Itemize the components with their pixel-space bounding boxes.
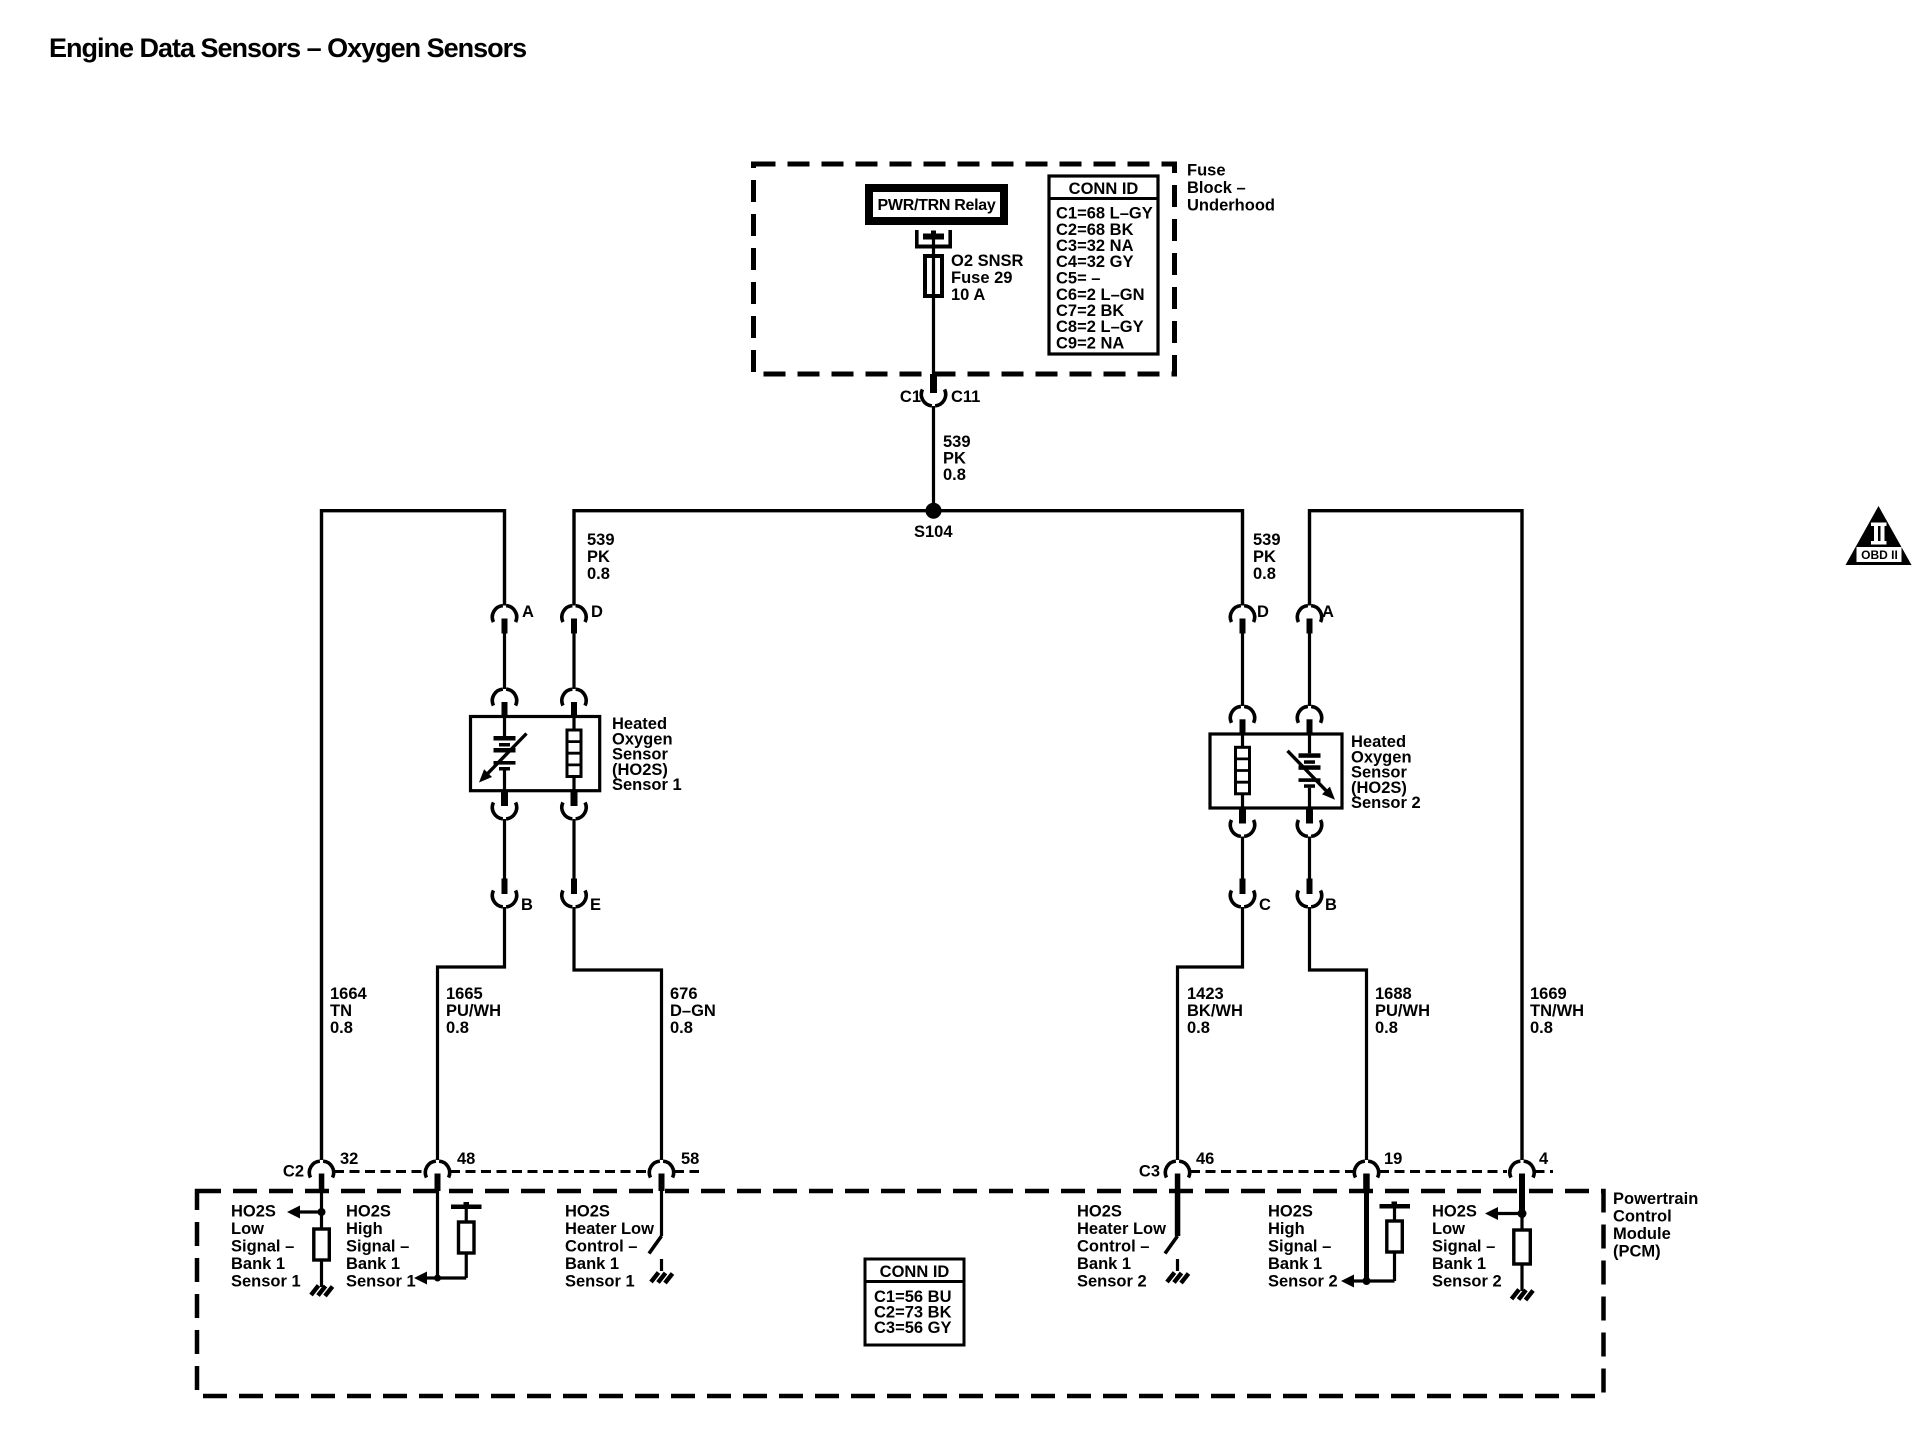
svg-text:0.8: 0.8 [1375, 1019, 1398, 1037]
relay output terminal [915, 230, 952, 249]
CONN ID table (fuse block) [1049, 176, 1158, 354]
svg-text:D–GN: D–GN [670, 1002, 716, 1020]
wire 1664 top run (pin32 to sensor1 A) [322, 511, 505, 1160]
wire A to sensor2 [1308, 634, 1311, 707]
connector at sensor2 pin B [1297, 808, 1321, 836]
text HO2S Low Signal Bank1 Sensor1 [231, 1203, 301, 1291]
svg-text:PU/WH: PU/WH [446, 1002, 501, 1020]
arrow HO2S high signal s1 [414, 1272, 438, 1285]
svg-text:PK: PK [943, 450, 966, 468]
connector C (sensor2 harness) [1230, 879, 1271, 915]
label 539 PK 0.8 (sensor2 D) [1253, 531, 1281, 583]
wire pin19 down [1364, 1191, 1369, 1281]
svg-text:D: D [591, 603, 603, 621]
svg-text:Heater Low: Heater Low [1077, 1220, 1166, 1238]
wire D to sensor2 [1241, 634, 1244, 707]
node pin19 junction [1363, 1277, 1371, 1285]
text HO2S Heater Low Control Bank1 Sensor1 [565, 1203, 654, 1291]
svg-text:High: High [1268, 1220, 1305, 1238]
wire pin4 to resistor [1520, 1214, 1523, 1231]
PCM pin header dashes [334, 1170, 1553, 1173]
wire 1423 run to pin46 [1178, 907, 1243, 1160]
svg-text:HO2S: HO2S [1268, 1203, 1313, 1221]
svg-text:539: 539 [943, 433, 971, 451]
resistor low signal s1 [314, 1229, 330, 1260]
svg-text:C3: C3 [1139, 1163, 1160, 1181]
svg-text:0.8: 0.8 [446, 1019, 469, 1037]
svg-text:676: 676 [670, 985, 698, 1003]
node pin48 junction [434, 1275, 441, 1282]
PWR/TRN Relay box [869, 188, 1004, 221]
svg-text:TN: TN [330, 1002, 352, 1020]
connector at sensor1 pin E [562, 791, 586, 819]
wire A to sensor1 [503, 634, 506, 690]
wire 676 run to pin58 [574, 907, 662, 1160]
label 676 D-GN 0.8 [670, 985, 716, 1037]
svg-text:Powertrain: Powertrain [1613, 1190, 1698, 1208]
svg-text:HO2S: HO2S [346, 1203, 391, 1221]
svg-text:Low: Low [1432, 1220, 1465, 1238]
svg-text:Fuse 29: Fuse 29 [951, 269, 1012, 287]
pullup resistor high signal s1 [438, 1202, 482, 1278]
svg-text:HO2S: HO2S [1077, 1203, 1122, 1221]
svg-text:Block –: Block – [1187, 179, 1246, 197]
sensor1 sensing element (variable battery) [479, 717, 527, 791]
svg-text:0.8: 0.8 [1187, 1019, 1210, 1037]
svg-text:Control: Control [1613, 1208, 1672, 1226]
connector at sensor1 pin B [492, 791, 516, 819]
svg-text:Control –: Control – [1077, 1238, 1149, 1256]
svg-text:Engine Data Sensors – Oxygen S: Engine Data Sensors – Oxygen Sensors [49, 33, 526, 63]
svg-text:TN/WH: TN/WH [1530, 1002, 1584, 1020]
connector A (sensor2 harness) [1297, 603, 1334, 634]
svg-text:Bank 1: Bank 1 [1077, 1255, 1131, 1273]
svg-text:0.8: 0.8 [943, 466, 966, 484]
svg-text:PU/WH: PU/WH [1375, 1002, 1430, 1020]
svg-text:(PCM): (PCM) [1613, 1243, 1661, 1261]
connector B (sensor1 harness) [492, 879, 533, 915]
OBD II symbol [1846, 506, 1912, 565]
resistor low signal s2 [1514, 1230, 1531, 1264]
svg-text:C2: C2 [283, 1163, 304, 1181]
label 539 PK 0.8 (feed) [943, 433, 971, 484]
connector at sensor2 pin C [1230, 808, 1254, 836]
svg-text:58: 58 [681, 1150, 699, 1168]
svg-text:S104: S104 [914, 523, 953, 541]
wire 539 feed to S104 [932, 406, 935, 511]
wire 1688 run to pin19 [1310, 907, 1367, 1160]
svg-text:Sensor 1: Sensor 1 [565, 1273, 635, 1291]
pin 4 connector [1510, 1150, 1549, 1213]
wire sensor2 C down [1241, 837, 1244, 879]
svg-text:Bank 1: Bank 1 [565, 1255, 619, 1273]
label 1688 PU/WH 0.8 [1375, 985, 1430, 1037]
svg-text:Sensor 1: Sensor 1 [231, 1273, 301, 1291]
svg-text:46: 46 [1196, 1150, 1214, 1168]
PCM label [1613, 1190, 1698, 1261]
svg-text:Signal –: Signal – [346, 1238, 409, 1256]
svg-text:Sensor 2: Sensor 2 [1351, 794, 1421, 812]
svg-text:0.8: 0.8 [670, 1019, 693, 1037]
ground heater control s1 [651, 1259, 673, 1283]
wire resistor to ground s2 [1520, 1264, 1523, 1291]
svg-text:0.8: 0.8 [330, 1019, 353, 1037]
svg-text:PWR/TRN Relay: PWR/TRN Relay [878, 197, 996, 214]
wire pin48 down [436, 1191, 439, 1278]
pullup resistor high signal s2 [1367, 1202, 1411, 1282]
svg-text:BK/WH: BK/WH [1187, 1002, 1243, 1020]
svg-text:Low: Low [231, 1220, 264, 1238]
svg-text:Bank 1: Bank 1 [1268, 1255, 1322, 1273]
connector D (sensor1 harness) [562, 603, 603, 634]
ground low signal s1 [311, 1286, 333, 1297]
wire resistor to ground s1 [320, 1260, 323, 1287]
heated oxygen sensor 2 box [1210, 734, 1342, 808]
svg-text:Bank 1: Bank 1 [1432, 1255, 1486, 1273]
CONN ID table (PCM) [865, 1259, 964, 1345]
svg-text:0.8: 0.8 [1253, 565, 1276, 583]
svg-text:Bank 1: Bank 1 [346, 1255, 400, 1273]
svg-text:48: 48 [457, 1150, 475, 1168]
arrow HO2S low signal s1 [287, 1206, 322, 1219]
text HO2S Heater Low Control Bank1 Sensor2 [1077, 1203, 1166, 1291]
connector B (sensor2 harness) [1297, 879, 1337, 915]
svg-text:C9=2 NA: C9=2 NA [1056, 335, 1124, 353]
connector A (sensor1 harness) [492, 603, 534, 634]
ground low signal s2 [1512, 1290, 1534, 1301]
text HO2S High Signal Bank1 Sensor1 [346, 1203, 416, 1291]
svg-text:PK: PK [1253, 548, 1276, 566]
wire D to sensor1 [572, 634, 575, 690]
svg-text:Sensor 2: Sensor 2 [1077, 1273, 1147, 1291]
svg-text:C1: C1 [900, 388, 921, 406]
svg-text:Signal –: Signal – [1432, 1238, 1495, 1256]
svg-text:1669: 1669 [1530, 985, 1567, 1003]
wire pin32 to resistor [320, 1191, 323, 1229]
svg-text:D: D [1257, 603, 1269, 621]
wire sensor2 B down [1308, 837, 1311, 879]
switch heater control s2 [1165, 1236, 1178, 1254]
node pin32 junction [318, 1208, 326, 1216]
svg-text:Sensor 1: Sensor 1 [612, 776, 682, 794]
label 1423 BK/WH 0.8 [1187, 985, 1243, 1037]
connector D (sensor2 harness) [1230, 603, 1269, 634]
arrow HO2S low signal s2 [1485, 1207, 1522, 1220]
svg-text:Bank 1: Bank 1 [231, 1255, 285, 1273]
svg-text:Heater Low: Heater Low [565, 1220, 654, 1238]
fuse block label [1187, 162, 1275, 215]
label 1664 TN 0.8 [330, 985, 368, 1037]
svg-text:C11: C11 [951, 388, 980, 406]
PCM dashed enclosure [197, 1191, 1604, 1396]
sensor1 heater element [567, 717, 581, 791]
svg-text:CONN ID: CONN ID [880, 1263, 950, 1281]
wire sensor1 B down [503, 819, 506, 879]
svg-text:B: B [1325, 896, 1337, 914]
svg-text:539: 539 [587, 531, 615, 549]
sensor2 heater element [1236, 734, 1250, 808]
svg-text:Fuse: Fuse [1187, 162, 1226, 180]
pin 48 connector [425, 1150, 475, 1191]
svg-text:C: C [1259, 896, 1271, 914]
text HO2S Low Signal Bank1 Sensor2 [1432, 1203, 1502, 1291]
connector E (sensor1 harness) [562, 879, 601, 915]
wire 1669 top run (sensor2 A to pin4) [1310, 511, 1523, 1160]
svg-text:Sensor 2: Sensor 2 [1432, 1273, 1502, 1291]
svg-text:C5= –: C5= – [1056, 270, 1101, 288]
splice S104 [914, 503, 953, 541]
pin 32 connector C2 [283, 1150, 358, 1191]
svg-text:1665: 1665 [446, 985, 483, 1003]
svg-text:Sensor 2: Sensor 2 [1268, 1273, 1338, 1291]
wire relay to fuse [932, 239, 935, 256]
svg-text:10 A: 10 A [951, 286, 985, 304]
sensor2 label [1351, 733, 1421, 812]
svg-text:Module: Module [1613, 1225, 1671, 1243]
node pin4 junction [1518, 1209, 1527, 1218]
arrow HO2S high signal s2 [1341, 1275, 1367, 1288]
connector at sensor2 pin D [1230, 706, 1254, 734]
sensor1 label [612, 715, 682, 794]
svg-text:32: 32 [340, 1150, 358, 1168]
svg-text:1664: 1664 [330, 985, 368, 1003]
label 1665 PU/WH 0.8 [446, 985, 501, 1037]
svg-text:19: 19 [1384, 1150, 1402, 1168]
svg-text:Signal –: Signal – [231, 1238, 294, 1256]
svg-text:1423: 1423 [1187, 985, 1224, 1003]
svg-text:A: A [522, 603, 534, 621]
switch heater control s1 [649, 1236, 662, 1254]
pin 46 connector C3 [1139, 1150, 1214, 1236]
svg-text:C3=56 GY: C3=56 GY [874, 1319, 952, 1337]
svg-text:HO2S: HO2S [1432, 1203, 1477, 1221]
svg-text:Underhood: Underhood [1187, 197, 1275, 215]
svg-text:C1=68 L–GY: C1=68 L–GY [1056, 205, 1153, 223]
fuse O2 SNSR Fuse 29 10A [925, 252, 1024, 374]
label 539 PK 0.8 (sensor1 D) [587, 531, 615, 583]
svg-text:PK: PK [587, 548, 610, 566]
connector C1 / C11 [900, 374, 980, 406]
wire 539 PK bus [574, 511, 1243, 606]
svg-text:High: High [346, 1220, 383, 1238]
sensor2 sensing element (variable battery) [1288, 734, 1336, 808]
svg-text:0.8: 0.8 [1530, 1019, 1553, 1037]
wire sensor1 E down [572, 819, 575, 879]
pin 58 connector [649, 1150, 699, 1191]
svg-text:C4=32 GY: C4=32 GY [1056, 253, 1134, 271]
svg-text:1688: 1688 [1375, 985, 1412, 1003]
svg-text:Control –: Control – [565, 1238, 637, 1256]
text HO2S High Signal Bank1 Sensor2 [1268, 1203, 1338, 1291]
svg-text:O2 SNSR: O2 SNSR [951, 252, 1024, 270]
connector at sensor1 pin D [562, 689, 586, 716]
wire pin58 to switch [660, 1191, 663, 1236]
wire 1665 run to pin48 [438, 907, 505, 1160]
svg-text:HO2S: HO2S [565, 1203, 610, 1221]
connector at sensor2 pin A [1297, 706, 1321, 734]
svg-text:4: 4 [1539, 1150, 1549, 1168]
ground heater control s2 [1167, 1259, 1189, 1283]
svg-text:Signal –: Signal – [1268, 1238, 1331, 1256]
svg-text:CONN ID: CONN ID [1069, 180, 1139, 198]
pin 19 connector [1354, 1150, 1402, 1191]
svg-text:OBD II: OBD II [1861, 548, 1898, 562]
svg-text:Sensor 1: Sensor 1 [346, 1273, 416, 1291]
svg-text:B: B [521, 896, 533, 914]
label 1669 TN/WH 0.8 [1530, 985, 1584, 1037]
svg-text:A: A [1322, 603, 1334, 621]
heated oxygen sensor 1 box [471, 717, 600, 791]
fuse block dashed enclosure [754, 164, 1175, 374]
svg-text:C8=2 L–GY: C8=2 L–GY [1056, 318, 1144, 336]
svg-text:0.8: 0.8 [587, 565, 610, 583]
svg-text:E: E [590, 896, 601, 914]
svg-text:HO2S: HO2S [231, 1203, 276, 1221]
svg-text:539: 539 [1253, 531, 1281, 549]
connector at sensor1 pin A [492, 689, 516, 716]
